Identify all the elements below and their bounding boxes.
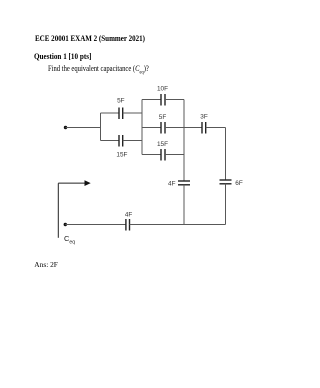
- svg-text:5F: 5F: [117, 98, 125, 105]
- node: top-left terminal dot: [64, 126, 67, 129]
- svg-text:4F: 4F: [125, 212, 133, 219]
- wire: top terminal to left parallel block: [66, 127, 102, 129]
- wire: left block left rail: [100, 113, 102, 141]
- wire: shared middle rail: [141, 100, 143, 155]
- capacitor 6F (vertical, far right): [220, 180, 232, 225]
- capacitor 3F (horizontal top right): [184, 122, 226, 134]
- svg-text:10F: 10F: [157, 86, 168, 93]
- svg-text:6F: 6F: [235, 180, 243, 187]
- capacitor 4F (bottom wire): [65, 219, 225, 231]
- capacitor 5F (right block middle branch): [142, 122, 184, 134]
- svg-text:3F: 3F: [200, 114, 208, 121]
- answer: Ans: 2F: [34, 260, 58, 269]
- prompt: Find the equivalent capacitance: [48, 64, 149, 76]
- svg-text:15F: 15F: [116, 152, 127, 159]
- capacitor 4F (vertical, on right rail): [178, 181, 190, 225]
- arrow: Ceq annotation: [58, 180, 90, 238]
- title: ECE 20001 EXAM 2 (Summer 2021): [35, 34, 145, 43]
- node: bottom-left terminal dot: [64, 223, 67, 226]
- capacitor 10F (right block top branch): [142, 94, 184, 106]
- svg-text:5F: 5F: [159, 114, 167, 121]
- capacitor 15F (right block bottom branch): [142, 149, 184, 161]
- heading: Question 1 [10 pts]: [34, 52, 91, 61]
- label Ceq (terminal): [64, 234, 75, 246]
- svg-text:4F: 4F: [168, 180, 176, 187]
- wire: far right vertical: [225, 128, 227, 181]
- svg-text:15F: 15F: [157, 141, 168, 148]
- wire: right rail of right block: [183, 100, 185, 182]
- capacitor 5F (left block top branch): [101, 108, 143, 120]
- capacitor 15F (left block bottom branch): [101, 135, 143, 147]
